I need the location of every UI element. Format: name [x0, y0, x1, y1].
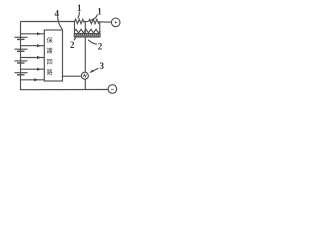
- battery B2: [15, 49, 28, 51]
- wire tap 3 with arrow: [21, 56, 45, 59]
- battery B4: [15, 73, 28, 75]
- svg-text:2: 2: [70, 40, 75, 50]
- wire box output: [62, 75, 82, 77]
- pointer for label 1 left: [78, 12, 80, 19]
- wire right stub of block: [99, 22, 101, 36]
- svg-text:護: 護: [47, 47, 54, 55]
- protection circuit box U4: [44, 30, 62, 81]
- wire tap 4 with arrow: [21, 68, 45, 71]
- wire bottom bus: [21, 89, 109, 91]
- svg-text:路: 路: [47, 68, 54, 76]
- svg-text:3: 3: [100, 61, 105, 71]
- wire between 1a 1b: [84, 21, 88, 23]
- pointer for label 2 left: [74, 37, 76, 41]
- svg-text:1: 1: [77, 3, 82, 13]
- pointer for label 3 with arrowhead: [89, 68, 98, 73]
- pointer for label 2 right: [88, 40, 97, 44]
- plus terminal circle: [111, 18, 120, 27]
- thermal switch S3 circle: [81, 72, 88, 79]
- wire tap 2 with arrow: [21, 44, 45, 47]
- svg-text:回: 回: [47, 59, 53, 66]
- battery B1: [15, 37, 28, 39]
- wire left stub of block: [74, 22, 76, 36]
- pointer for label 4: [58, 17, 63, 30]
- wire tap 1 with arrow: [21, 32, 45, 35]
- wire middle drop: [84, 22, 86, 73]
- wire to plus terminal: [99, 21, 111, 23]
- wire top rail: [21, 21, 75, 23]
- wire left bus: [20, 22, 22, 91]
- breaker element 1a zigzag: [75, 19, 85, 23]
- resistor R2 zigzag: [75, 29, 100, 33]
- svg-text:保: 保: [47, 37, 54, 45]
- wire below switch: [84, 79, 86, 90]
- breaker element 1b zigzag: [88, 19, 99, 23]
- svg-text:1: 1: [97, 7, 102, 17]
- heater bar element 2: [74, 34, 100, 37]
- wire tap 5 with arrow: [21, 78, 45, 81]
- minus terminal circle: [108, 85, 117, 94]
- svg-text:2: 2: [98, 42, 103, 52]
- pointer for label 1 right: [90, 15, 97, 21]
- battery B3: [15, 61, 28, 63]
- svg-text:4: 4: [55, 9, 60, 19]
